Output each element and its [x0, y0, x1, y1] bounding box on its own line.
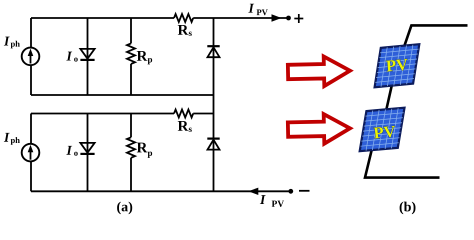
wire cell2 bottom to - terminal — [31, 190, 290, 192]
wire b middle connector — [386, 86, 391, 109]
minus sign — [299, 190, 310, 192]
label Io cell2 — [66, 146, 72, 155]
red block arrow 2 — [288, 114, 351, 145]
arrowhead IPV top (current direction out) — [272, 14, 282, 21]
wire cell2 left rail — [30, 114, 32, 192]
wire cell1 bottom — [31, 94, 214, 96]
diode D1 (Io cell1, pointing down) — [80, 49, 94, 60]
diode D3 (bypass cell1, pointing up) — [207, 46, 219, 57]
wire Rp branch cell1 upper — [130, 18, 132, 43]
wire cell2 top right segment — [193, 113, 213, 115]
wire b bottom — [365, 150, 440, 177]
label (a) — [117, 202, 132, 215]
wire Rp branch cell2 lower — [130, 158, 132, 192]
plus sign — [294, 14, 303, 23]
diode D2 (Io cell2, pointing down) — [80, 143, 94, 154]
terminal dot - — [288, 189, 293, 194]
wire cell2 top left segment — [31, 113, 174, 115]
label Rs cell1 — [178, 25, 189, 35]
resistor R1 (Rs cell1) — [174, 14, 193, 22]
current source CS2 (Iph cell2) — [22, 144, 40, 162]
diode D4 (bypass cell2, pointing up) — [207, 139, 219, 150]
terminal dot + — [286, 16, 291, 21]
label PV module 2 — [373, 126, 395, 139]
resistor R4 (Rp cell2) — [127, 137, 135, 158]
resistor R2 (Rp cell1) — [127, 43, 135, 64]
resistor R3 (Rs cell2) — [174, 110, 193, 118]
label Rs cell2 — [178, 121, 189, 131]
wire Rp branch cell2 upper — [130, 114, 132, 138]
label (b) — [400, 202, 416, 215]
label Rp cell2 — [137, 143, 148, 153]
arrowhead IPV bottom (current direction in) — [248, 188, 258, 195]
label IPV top — [248, 4, 254, 13]
wire b top — [404, 25, 467, 45]
red block arrow 1 — [288, 56, 351, 87]
current source CS1 (Iph cell1) — [22, 48, 40, 66]
wire cell1 top right segment to + terminal — [193, 17, 287, 19]
wire cell1 top left segment — [31, 17, 174, 19]
label Iph cell2 — [4, 133, 10, 142]
PV module 1 — [375, 44, 420, 87]
wire right rail — [213, 18, 215, 191]
label IPV bottom — [260, 195, 266, 204]
label PV module 1 — [386, 59, 408, 72]
wire Rp branch cell1 lower — [130, 64, 132, 95]
label Rp cell1 — [137, 51, 148, 61]
wire diode branch cell2 — [87, 114, 89, 192]
label Io cell1 — [66, 52, 72, 61]
label Iph cell1 — [4, 37, 10, 46]
PV module 2 — [360, 108, 405, 152]
wire cell1 left rail — [30, 18, 32, 95]
wire diode branch cell1 — [87, 18, 89, 95]
